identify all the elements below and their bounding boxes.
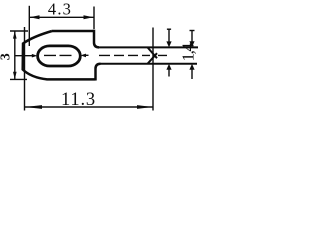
- svg-text:11.3: 11.3: [61, 90, 96, 110]
- svg-text:4.3: 4.3: [48, 0, 72, 18]
- svg-text:3: 3: [0, 53, 14, 60]
- svg-text:1,4: 1,4: [179, 43, 198, 62]
